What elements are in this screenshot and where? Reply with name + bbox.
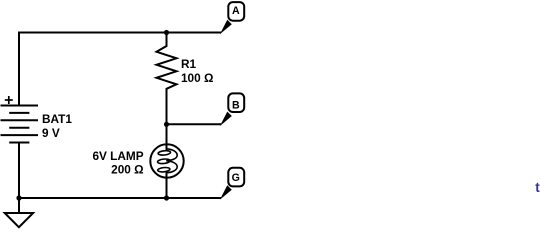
junction dot ground rail left [16, 195, 21, 200]
node B flag pointer [220, 112, 232, 127]
junction dot top (node A junction) [164, 30, 169, 35]
battery BAT1 [1, 106, 39, 143]
junction dot node B [164, 122, 169, 127]
wire left vertical upper (corner to battery top plate) [18, 32, 20, 106]
node G flag pointer [220, 185, 232, 200]
svg-text:B: B [232, 100, 240, 112]
svg-text:100 Ω: 100 Ω [181, 71, 213, 85]
wire lamp bottom to ground rail [166, 172, 168, 198]
svg-text:6V LAMP: 6V LAMP [92, 149, 143, 163]
svg-text:R1: R1 [181, 57, 197, 71]
svg-text:200 Ω: 200 Ω [111, 163, 143, 177]
node G flag box [228, 168, 244, 187]
node B flag box [228, 93, 244, 112]
lamp filament coil [157, 149, 177, 173]
junction dot lamp bottom [164, 195, 169, 200]
wire node B horizontal [167, 123, 222, 125]
svg-text:BAT1: BAT1 [42, 112, 72, 126]
wire bottom horizontal (ground rail to node G pointer) [19, 197, 221, 199]
node A flag pointer [220, 20, 232, 35]
ground symbol [5, 213, 33, 227]
battery plus sign [5, 96, 13, 104]
svg-text:G: G [232, 172, 240, 184]
svg-text:A: A [232, 5, 240, 17]
wire middle vertical (B junction to lamp top) [166, 124, 168, 151]
svg-text:9 V: 9 V [42, 126, 60, 140]
node A flag box [228, 2, 244, 21]
lamp 6V LAMP body circle [150, 144, 183, 177]
svg-text:t: t [535, 180, 540, 195]
wire left vertical lower (battery bottom to ground) [18, 143, 20, 214]
resistor R1 [157, 33, 177, 125]
wire top horizontal from battery branch to node A pointer [19, 32, 221, 34]
